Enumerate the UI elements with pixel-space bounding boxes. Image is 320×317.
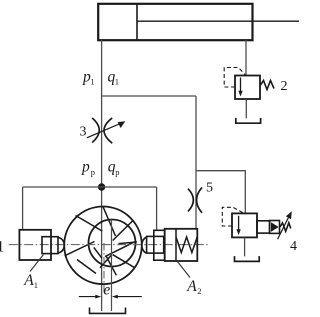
svg-text:e: e <box>103 282 110 299</box>
label A2 <box>186 278 201 296</box>
label p1 <box>82 69 95 87</box>
bottom bracket <box>90 308 126 314</box>
A2 piston rect <box>147 236 164 253</box>
throttle 5 right arc <box>197 187 203 212</box>
throttle 3 right arc <box>104 118 112 143</box>
svg-text:A: A <box>186 278 197 295</box>
valve 2 tank <box>236 118 261 123</box>
svg-text:p: p <box>91 167 95 177</box>
label 2 <box>281 79 288 94</box>
label 1 <box>0 238 4 255</box>
pump stator ring <box>64 207 142 285</box>
wire q1 drop to throttle 5 and A2 <box>195 96 197 228</box>
wire left drop to A1 <box>22 187 24 230</box>
A1 leader line <box>30 255 43 272</box>
valve 2 pilot dashed line <box>224 68 245 88</box>
wire q1 horizontal <box>102 95 196 97</box>
valve 4 arrow <box>238 216 240 231</box>
piston rod <box>137 20 299 22</box>
valve 4 body <box>232 213 257 237</box>
label pp <box>81 158 95 177</box>
wire branch to valve 4 <box>196 171 245 214</box>
valve 4 triangle box <box>270 221 280 234</box>
vane 1 top <box>103 206 116 236</box>
svg-text:2: 2 <box>281 79 288 94</box>
rotor centre extension line <box>111 220 113 312</box>
svg-text:4: 4 <box>290 239 297 254</box>
throttle 3 left arc <box>92 118 99 143</box>
throttle 3 adjust arrow <box>87 123 122 138</box>
vane 4 upper-right <box>113 221 133 241</box>
A2 bullet tip <box>142 237 147 253</box>
label 5 <box>206 181 213 196</box>
svg-text:p: p <box>81 158 90 175</box>
A1 bullet tip <box>58 237 64 253</box>
relief valve 2 body <box>235 76 260 100</box>
label A1 <box>23 272 38 290</box>
vane 8 bottom left-lean <box>100 255 112 268</box>
label 3 <box>80 124 87 139</box>
valve 4 channel rect <box>257 221 270 233</box>
label e <box>103 282 110 299</box>
A2 spring seat line <box>175 229 177 261</box>
horizontal centreline dash-dot <box>9 244 208 246</box>
A2 flange rect <box>154 230 165 260</box>
svg-text:1: 1 <box>0 238 4 255</box>
throttle 5 left arc <box>188 189 193 212</box>
valve 2 arrow <box>240 78 242 93</box>
dimension arrow left <box>79 296 96 298</box>
vane 3 left <box>65 242 95 256</box>
svg-text:1: 1 <box>90 77 94 87</box>
svg-text:1: 1 <box>115 77 119 87</box>
valve 4 tank <box>235 256 260 261</box>
stator axis dash-dot <box>103 243 105 293</box>
pump rotor <box>89 220 136 267</box>
dimension arrow right <box>117 296 142 298</box>
valve 4 spring <box>280 223 291 232</box>
A1 piston rect <box>42 237 58 254</box>
wire p1 vertical (cylinder to pump, continues as stator extension line) <box>101 40 103 311</box>
svg-text:5: 5 <box>206 181 213 196</box>
valve 2 drain <box>245 99 247 118</box>
valve 4 solid triangle <box>271 222 279 231</box>
cylinder body <box>98 4 252 40</box>
A1 housing square <box>19 230 51 260</box>
A2 spring <box>176 237 197 253</box>
vane 9 lower-left chord <box>77 260 96 274</box>
piston <box>136 4 138 40</box>
vane 11 right horizontal <box>119 242 137 244</box>
valve 2 spring <box>261 81 275 90</box>
svg-text:A: A <box>23 272 34 289</box>
svg-text:2: 2 <box>197 286 201 296</box>
A2 spring box <box>165 229 198 261</box>
svg-text:1: 1 <box>34 280 38 290</box>
svg-text:p: p <box>115 167 119 177</box>
wire valve 2 feed <box>245 40 247 76</box>
wire right drop to A2 <box>156 187 158 230</box>
valve 4 adjust arrow <box>278 215 290 240</box>
vane 7 bottom right-lean <box>106 256 116 275</box>
label q1 <box>108 69 120 87</box>
vane 10 inner chord <box>94 247 102 258</box>
valve 4 drain <box>244 238 246 257</box>
valve 4 pilot dashed line <box>222 207 244 226</box>
svg-text:3: 3 <box>80 124 87 139</box>
node dot <box>98 183 105 190</box>
vane 6 lower-right <box>113 255 135 268</box>
label qp <box>108 158 120 177</box>
vane 5 right diagonal <box>105 242 135 257</box>
wire pp horizontal <box>23 186 157 188</box>
label 4 <box>290 239 297 254</box>
vane 2 upper-left <box>76 216 103 232</box>
A2 leader line <box>177 261 190 278</box>
